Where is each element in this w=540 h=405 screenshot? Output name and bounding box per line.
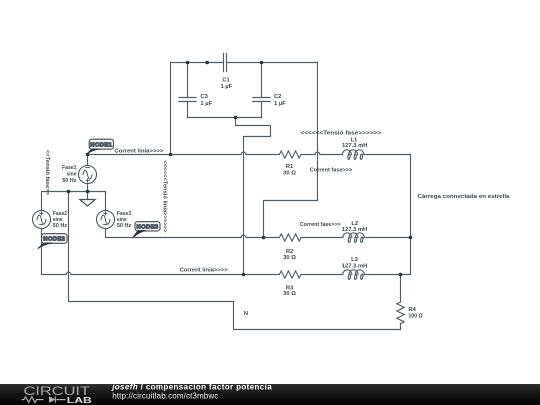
svg-text:Fase2: Fase2 — [53, 211, 67, 217]
source Fase2 — [33, 211, 51, 275]
label Fase3 — [117, 211, 132, 229]
node dot C2 top — [260, 61, 264, 65]
wire neutral top bus — [42, 192, 106, 211]
logo diode cathode bar — [54, 397, 56, 403]
svg-text:50 Hz: 50 Hz — [117, 223, 131, 229]
node dot neutral branch — [67, 190, 71, 194]
node NODE2 — [38, 234, 67, 249]
resistor R3 — [279, 271, 301, 278]
node NODE1 — [87, 139, 113, 154]
wire right cap leg down to phase2 line — [264, 63, 318, 238]
svg-text:LAB: LAB — [67, 395, 92, 405]
inductor L1 — [342, 150, 367, 160]
svg-text:127.3 mH: 127.3 mH — [342, 227, 367, 233]
label L2 value — [342, 221, 367, 233]
wire phase3 line with hop over neutral — [42, 272, 280, 274]
svg-text:1 µF: 1 µF — [220, 84, 232, 90]
svg-text:http://circuitlab.com/ct3mbwc: http://circuitlab.com/ct3mbwc — [112, 391, 218, 400]
label R2 value — [283, 249, 296, 261]
svg-text:Corrent fase>>>: Corrent fase>>> — [310, 167, 353, 173]
wire C2 branch lower — [261, 102, 263, 118]
svg-text:NODE1: NODE1 — [90, 142, 112, 148]
label tensio fase vertical — [44, 150, 50, 196]
wire L3 to right rail — [368, 274, 411, 276]
svg-text:127.3 mH: 127.3 mH — [342, 143, 367, 149]
label N — [244, 311, 248, 317]
node dot top wire mid — [205, 61, 209, 65]
node dot cap left leg — [169, 153, 173, 157]
svg-text:127.3 mH: 127.3 mH — [342, 264, 367, 270]
label tensio linia vertical — [161, 160, 167, 233]
svg-text:C2: C2 — [274, 94, 281, 100]
svg-text:NODE3: NODE3 — [137, 225, 159, 231]
svg-text:100 Ω: 100 Ω — [408, 313, 423, 319]
svg-text:1 µF: 1 µF — [200, 101, 212, 107]
label L1 value — [342, 137, 367, 149]
svg-text:N: N — [244, 311, 248, 317]
source Fase1 — [79, 155, 97, 192]
label Fase2 — [53, 211, 67, 229]
logo resistor squiggle — [22, 397, 66, 403]
label tensio fase arrows — [301, 130, 382, 136]
label C2 value — [274, 94, 286, 107]
label R1 value — [283, 164, 296, 177]
svg-text:Fase3: Fase3 — [117, 211, 132, 217]
node dot C3 top — [186, 61, 190, 65]
svg-text:sine: sine — [67, 172, 78, 178]
logo diode triangle — [49, 396, 55, 402]
wire neutral run to R4 — [69, 192, 401, 330]
capacitor C1 — [224, 54, 227, 72]
inductor L3 — [343, 270, 368, 280]
wire R1 to L1 with hop — [301, 152, 342, 154]
svg-text:<<<<<<Tensió linia>>>>>>: <<<<<<Tensió linia>>>>>> — [161, 160, 167, 233]
svg-text:Càrrega connectada en estrella: Càrrega connectada en estrella — [418, 194, 511, 200]
wire cap bank top-right — [227, 62, 318, 64]
label Fase1 — [62, 165, 77, 184]
svg-text:josefh / compensacion factor p: josefh / compensacion factor potencia — [111, 384, 272, 392]
svg-text:R4: R4 — [408, 307, 416, 313]
node dot staircase on phase3 — [242, 273, 246, 277]
svg-text:sine: sine — [53, 217, 63, 223]
resistor R2 — [279, 234, 301, 241]
svg-text:Corrent linia>>>>: Corrent linia>>>> — [114, 148, 164, 154]
label R4 value — [408, 307, 423, 319]
source Fase3 — [97, 211, 115, 238]
resistor R1 — [279, 151, 301, 158]
wire C3 branch upper — [187, 63, 189, 98]
inductor L2 — [343, 233, 368, 243]
label corrent linia 2 — [180, 268, 229, 274]
svg-text:Corrent linia>>>>: Corrent linia>>>> — [180, 268, 229, 274]
node dot cap bus — [234, 116, 238, 120]
svg-text:50 Hz: 50 Hz — [53, 223, 67, 229]
svg-text:Fase1: Fase1 — [62, 165, 77, 171]
svg-text:C1: C1 — [222, 78, 230, 84]
svg-text:Corrent fase>>>: Corrent fase>>> — [300, 222, 342, 228]
wire L2 to right rail — [368, 237, 411, 239]
capacitor C3 — [179, 98, 196, 102]
node dot fase1 bottom — [86, 190, 90, 194]
node dot cap leg on phase2 — [262, 236, 266, 240]
svg-text:50 Hz: 50 Hz — [62, 178, 76, 184]
label corrent fase 2 — [300, 222, 342, 228]
svg-text:C3: C3 — [200, 94, 208, 100]
svg-text:sine: sine — [117, 217, 127, 223]
ground — [80, 192, 95, 207]
label L3 value — [342, 257, 367, 269]
wire C3 branch lower — [187, 102, 189, 118]
label C1 value — [220, 78, 232, 91]
label corrent fase 1 — [310, 167, 353, 173]
wire capacitor bottom bus — [188, 117, 262, 119]
capacitor C2 — [253, 98, 270, 102]
wire staircase from cap bus to phase3 line — [236, 118, 271, 275]
svg-text:R1: R1 — [286, 164, 294, 170]
svg-text:1 µF: 1 µF — [274, 101, 286, 107]
label R3 value — [283, 286, 296, 298]
node dot R4 top — [399, 273, 403, 277]
wire L1 to right rail down — [368, 155, 411, 275]
wire C2 branch upper — [261, 63, 263, 98]
node dot fase1 top — [86, 153, 90, 157]
resistor R4 — [397, 275, 404, 330]
svg-text:L3: L3 — [351, 257, 359, 263]
label carrega connectada — [418, 194, 511, 200]
svg-text:30 Ω: 30 Ω — [283, 171, 296, 177]
node dot L2 right — [409, 236, 413, 240]
wire R3 to L3 — [301, 274, 343, 276]
wire R2 to L2 — [301, 237, 343, 239]
wire phase2 line with hop — [106, 235, 280, 237]
svg-text:<<Tensió fase>>: <<Tensió fase>> — [44, 150, 50, 196]
svg-text:30 Ω: 30 Ω — [283, 291, 296, 297]
label C3 value — [200, 94, 212, 107]
label corrent linia 1 — [114, 148, 164, 154]
node NODE3 — [132, 222, 160, 239]
footer bar — [0, 384, 540, 405]
wire cap bank top-left and left leg — [171, 63, 224, 155]
svg-text:NODE2: NODE2 — [43, 237, 65, 243]
svg-text:30 Ω: 30 Ω — [283, 255, 296, 261]
wire phase1 line with hops — [88, 152, 280, 154]
svg-text:<<<<<<Tensió fase>>>>>>: <<<<<<Tensió fase>>>>>> — [301, 130, 382, 136]
